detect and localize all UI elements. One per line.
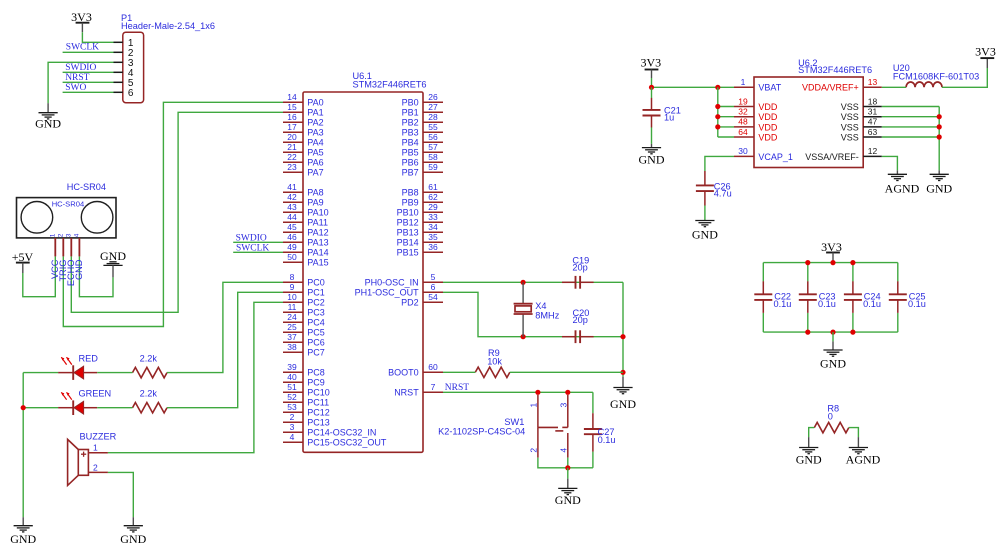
svg-text:2: 2: [93, 462, 98, 472]
wire SWO to P1 pin 6: [63, 91, 114, 93]
svg-text:PC0: PC0: [307, 278, 325, 288]
svg-text:PC10: PC10: [307, 388, 330, 398]
U6.1 pin 56 PB4: [402, 132, 443, 148]
svg-text:PB2: PB2: [402, 118, 419, 128]
wire TRIG to U6.1 PA0: [63, 102, 283, 326]
svg-text:51: 51: [287, 382, 297, 392]
svg-text:GND: GND: [74, 259, 84, 280]
wire SWDIO stub to PA13: [233, 241, 283, 243]
svg-text:GND: GND: [796, 452, 822, 466]
switch SW1 K2-1102SP-C4SC-04: [438, 395, 568, 458]
U6.2 pin 19 VDD: [734, 96, 778, 112]
svg-text:Header-Male-2.54_1x6: Header-Male-2.54_1x6: [121, 21, 215, 31]
wire cap bank bottom rail: [763, 331, 898, 333]
U6.1 pin 7 NRST: [394, 382, 443, 398]
svg-text:7: 7: [431, 382, 436, 392]
svg-text:20p: 20p: [573, 315, 588, 325]
svg-text:60: 60: [428, 362, 438, 372]
op-amp U6.1 STM32F446RET6 main body: [303, 92, 423, 452]
svg-text:37: 37: [287, 332, 297, 342]
U6.1 pin 54 PD2: [401, 292, 443, 308]
U6.1 pin 16 PA2: [283, 112, 324, 128]
svg-text:PC9: PC9: [307, 378, 325, 388]
svg-text:VSS: VSS: [841, 112, 859, 122]
wire GND to R8: [809, 428, 815, 438]
svg-text:PA12: PA12: [307, 228, 328, 238]
junction C24 top: [850, 260, 855, 265]
svg-text:14: 14: [287, 92, 297, 102]
svg-text:PA13: PA13: [307, 238, 328, 248]
U6.2 pin 18 VSS: [841, 96, 882, 112]
svg-text:0.1u: 0.1u: [818, 299, 836, 309]
wire led cathodes to GND: [23, 373, 58, 518]
svg-text:PB7: PB7: [402, 168, 419, 178]
wire VDD vertical with taps: [718, 87, 734, 137]
svg-text:GREEN: GREEN: [79, 389, 112, 399]
U6.1 pin 37 PC6: [283, 332, 325, 348]
wire PH0-OSC_IN to crystal/C19: [443, 281, 623, 283]
svg-text:PC2: PC2: [307, 298, 325, 308]
capacitor C21 1u: [643, 87, 681, 144]
junction VSS pin 47: [937, 124, 942, 129]
U6.1 pin 46 PA13: [283, 232, 329, 248]
svg-text:PA14: PA14: [307, 248, 328, 258]
svg-text:3V3: 3V3: [975, 45, 996, 59]
power symbol GND (below leds): [10, 517, 36, 546]
wire BOOT0 to R9: [443, 371, 475, 373]
svg-text:PC6: PC6: [307, 338, 325, 348]
power symbol 3V3 (far right): [975, 45, 996, 68]
svg-text:0.1u: 0.1u: [774, 299, 792, 309]
svg-text:8: 8: [290, 272, 295, 282]
svg-text:18: 18: [868, 96, 878, 106]
wire R9 to GND vertical: [510, 371, 623, 373]
svg-text:31: 31: [868, 107, 878, 117]
U6.1 pin 53 PC12: [283, 402, 330, 418]
junction C20 right: [620, 334, 625, 339]
svg-text:PC12: PC12: [307, 408, 330, 418]
wire P1 pin 3 to GND: [48, 62, 113, 103]
svg-text:0.1u: 0.1u: [908, 299, 926, 309]
resistor R9 10k: [475, 348, 510, 377]
U6.1 pin 26 PB0: [402, 92, 443, 108]
svg-text:24: 24: [287, 312, 297, 322]
power symbol GND (right of HC-SR04, inverted): [100, 249, 126, 277]
power symbol GND (below C21): [639, 144, 665, 167]
svg-text:43: 43: [287, 202, 297, 212]
svg-text:45: 45: [287, 222, 297, 232]
U6.2 pin 32 VDD: [734, 107, 778, 123]
svg-text:38: 38: [287, 342, 297, 352]
svg-text:STM32F446RET6: STM32F446RET6: [798, 65, 872, 75]
svg-text:GND: GND: [926, 182, 952, 196]
svg-text:29: 29: [428, 202, 438, 212]
connector P1 Header-Male-2.54_1x6: [114, 13, 215, 103]
svg-text:PC1: PC1: [307, 288, 325, 298]
capacitor C25 0.1u: [889, 263, 926, 333]
wire resistor to U6.1 PC0: [167, 282, 283, 372]
svg-text:0: 0: [828, 411, 833, 421]
capacitor C27 0.1u: [584, 392, 616, 468]
wire SWDIO to P1 pin 4: [63, 71, 114, 73]
U6.1 pin 2 PC13: [283, 412, 330, 428]
wire U20 to 3V3 right: [942, 68, 987, 87]
U6.1 pin 14 PA0: [283, 92, 324, 108]
junction VDD pin 19: [715, 104, 720, 109]
junction C24 bottom: [850, 330, 855, 335]
junction VDD pin 48: [715, 124, 720, 129]
U6.2 reference labels: [798, 58, 872, 75]
svg-text:STM32F446RET6: STM32F446RET6: [353, 79, 427, 89]
U6.1 pin 15 PA1: [283, 102, 324, 118]
capacitor C22 0.1u: [754, 263, 791, 333]
svg-text:PA9: PA9: [307, 198, 323, 208]
wire VSS pins to GND vertical: [882, 107, 939, 171]
resistor R8 0: [814, 403, 849, 433]
svg-text:1: 1: [49, 233, 56, 237]
svg-text:3V3: 3V3: [71, 10, 92, 24]
capacitor C19 20p: [562, 256, 594, 289]
svg-text:GND: GND: [610, 397, 636, 411]
svg-text:2: 2: [57, 233, 64, 237]
wire NRST to P1 pin 5: [63, 81, 114, 83]
wire R8 to AGND: [849, 428, 859, 438]
svg-text:PC3: PC3: [307, 308, 325, 318]
svg-text:64: 64: [738, 127, 748, 137]
wire junction to GND below SW1: [567, 468, 569, 479]
svg-text:13: 13: [868, 77, 878, 87]
junction X4 top: [521, 280, 526, 285]
junction VSS pin 31: [937, 114, 942, 119]
svg-text:30: 30: [738, 146, 748, 156]
crystal X4 8MHz: [514, 282, 560, 336]
wire VDDA to U20: [882, 86, 906, 88]
svg-text:VSS: VSS: [841, 132, 859, 142]
led RED: [58, 354, 98, 380]
svg-text:VSS: VSS: [841, 102, 859, 112]
svg-text:16: 16: [287, 112, 297, 122]
U6.1 pin 3 PC14-OSC32_IN: [283, 422, 376, 438]
svg-text:GND: GND: [820, 356, 846, 370]
junction VDD pin 32: [715, 114, 720, 119]
svg-text:PC7: PC7: [307, 348, 325, 358]
wire right vertical of crystal caps: [622, 282, 624, 376]
capacitor C23 0.1u: [799, 263, 836, 333]
power symbol GND (below P1): [35, 103, 61, 130]
svg-text:34: 34: [428, 222, 438, 232]
svg-text:28: 28: [428, 112, 438, 122]
junction VDD vertical top: [715, 85, 720, 90]
U6.2 pin 1 VBAT: [734, 77, 782, 93]
junction C23 top: [805, 260, 810, 265]
svg-text:11: 11: [288, 302, 297, 312]
svg-text:PB4: PB4: [402, 138, 419, 148]
U6.1 reference labels: [353, 71, 427, 89]
power symbol GND (crystal): [610, 377, 636, 411]
svg-text:BUZZER: BUZZER: [80, 431, 117, 441]
junction X4 bottom: [521, 334, 526, 339]
junction SW1 pin 1: [535, 390, 540, 395]
svg-text:48: 48: [738, 117, 748, 127]
svg-text:6: 6: [128, 88, 134, 99]
power symbol AGND (R8): [846, 437, 881, 466]
svg-text:PA4: PA4: [307, 138, 323, 148]
svg-text:PB3: PB3: [402, 128, 419, 138]
U6.1 pin 40 PC9: [283, 372, 325, 388]
wire GREEN led to resistor: [97, 407, 132, 409]
svg-text:PB10: PB10: [397, 208, 419, 218]
U6.1 pin 17 PA3: [283, 122, 324, 138]
svg-text:22: 22: [287, 152, 297, 162]
U6.1 pin 39 PC8: [283, 362, 325, 378]
svg-text:PA11: PA11: [307, 218, 328, 228]
U6.1 pin 43 PA10: [283, 202, 329, 218]
svg-text:2: 2: [290, 412, 295, 422]
svg-text:2.2k: 2.2k: [140, 354, 158, 364]
U6.1 pin 42 PA9: [283, 192, 324, 208]
svg-text:4: 4: [559, 448, 569, 453]
svg-text:57: 57: [428, 142, 438, 152]
resistor 2.2k (GREEN led): [133, 389, 168, 413]
svg-text:27: 27: [428, 102, 438, 112]
wire SW1 bottom to GND and C27: [538, 458, 593, 468]
power symbol 3V3 (left of U6.2): [640, 56, 661, 70]
svg-text:GND: GND: [10, 532, 36, 546]
svg-text:PD2: PD2: [401, 298, 419, 308]
power symbol GND (below SW1): [555, 479, 581, 508]
U6.2 pin 31 VSS: [841, 107, 882, 123]
U6.1 pin 21 PA5: [283, 142, 324, 158]
wire NRST to SW1 and C27: [443, 391, 593, 393]
wire resistor to U6.1 PC1: [167, 292, 283, 407]
svg-text:33: 33: [428, 212, 438, 222]
svg-text:61: 61: [428, 182, 438, 192]
led GREEN: [58, 389, 111, 415]
svg-text:VDD: VDD: [758, 112, 778, 122]
wire ECHO to U6.1 PA1: [71, 112, 283, 312]
U6.1 pin 55 PB3: [402, 122, 443, 138]
svg-text:PB1: PB1: [402, 108, 419, 118]
svg-text:NRST: NRST: [65, 73, 89, 83]
junction C23 bottom: [805, 330, 810, 335]
svg-text:10: 10: [287, 292, 297, 302]
power symbol GND (cap bank): [820, 341, 846, 370]
svg-text:PB15: PB15: [397, 248, 419, 258]
svg-text:PC8: PC8: [307, 368, 325, 378]
wire BUZZER pin 2 to GND: [108, 472, 133, 517]
svg-text:25: 25: [287, 322, 297, 332]
svg-text:PB13: PB13: [397, 228, 419, 238]
svg-text:9: 9: [290, 282, 295, 292]
svg-text:4: 4: [290, 432, 295, 442]
svg-text:53: 53: [287, 402, 297, 412]
svg-text:PA6: PA6: [307, 158, 323, 168]
wire 3V3 to P1 pin 1: [82, 23, 113, 43]
svg-text:52: 52: [287, 392, 297, 402]
junction SW1 pin 3: [565, 390, 570, 395]
svg-text:1: 1: [93, 443, 98, 453]
power symbol GND (below buzzer): [120, 517, 146, 546]
svg-text:5: 5: [431, 272, 436, 282]
wire bottom rail to GND: [832, 332, 834, 341]
svg-text:PB5: PB5: [402, 148, 419, 158]
svg-text:3: 3: [290, 422, 295, 432]
power symbol AGND (U6.2): [885, 170, 920, 195]
svg-text:PB9: PB9: [402, 198, 419, 208]
U6.2 pin 48 VDD: [734, 117, 778, 133]
U6.1 pin 58 PB6: [402, 152, 443, 168]
junction VSS pin 63: [937, 134, 942, 139]
svg-text:PA15: PA15: [307, 258, 328, 268]
svg-text:1: 1: [529, 403, 539, 408]
U6.1 pin 35 PB14: [397, 232, 443, 248]
wire cap bank top rail: [763, 262, 898, 264]
U6.1 pin 22 PA6: [283, 152, 324, 168]
U6.1 pin 8 PC0: [283, 272, 325, 288]
svg-text:PH1-OSC_OUT: PH1-OSC_OUT: [355, 288, 420, 298]
svg-text:40: 40: [287, 372, 297, 382]
svg-text:35: 35: [428, 232, 438, 242]
svg-text:VBAT: VBAT: [758, 83, 781, 93]
svg-text:41: 41: [287, 182, 297, 192]
svg-text:PH0-OSC_IN: PH0-OSC_IN: [365, 278, 419, 288]
svg-text:12: 12: [868, 146, 878, 156]
U6.1 pin 20 PA4: [283, 132, 324, 148]
U6.1 pin 10 PC2: [283, 292, 325, 308]
svg-text:17: 17: [287, 122, 297, 132]
U6.1 pin 34 PB13: [397, 222, 443, 238]
U6.1 pin 60 BOOT0: [388, 362, 443, 378]
U6.2 pin 12 VSSA/VREF-: [805, 146, 882, 162]
wire PH1-OSC_OUT to crystal/C20: [443, 292, 623, 336]
wire VCAP_1 to C26: [705, 156, 734, 171]
svg-text:GND: GND: [639, 152, 665, 166]
U6.2 pin 30 VCAP_1: [734, 146, 793, 162]
svg-text:21: 21: [287, 142, 297, 152]
wire +5V to HC-SR04 VCC: [23, 256, 56, 296]
junction 3V3 drop top rail: [830, 260, 835, 265]
svg-text:GND: GND: [100, 249, 126, 263]
U6.1 pin 23 PA7: [283, 162, 324, 178]
svg-text:VDD: VDD: [758, 102, 778, 112]
U6.1 pin 27 PB1: [402, 102, 443, 118]
U6.1 pin 9 PC1: [283, 282, 325, 298]
U6.1 pin 29 PB10: [397, 202, 443, 218]
svg-text:AGND: AGND: [846, 452, 881, 466]
svg-text:GND: GND: [692, 227, 718, 241]
U6.1 pin 24 PC4: [283, 312, 325, 328]
sensor HC-SR04: [17, 182, 117, 286]
wire 3V3 to cap bank rail: [832, 253, 834, 263]
U6.1 pin 6 PH1-OSC_OUT: [355, 282, 443, 298]
wire 3V3 to VBAT/VDD rail: [652, 70, 735, 88]
svg-text:63: 63: [868, 127, 878, 137]
svg-text:PC4: PC4: [307, 318, 325, 328]
svg-text:26: 26: [428, 92, 438, 102]
U6.2 pin 13 VDDA/VREF+: [802, 77, 882, 93]
U6.1 pin 38 PC7: [283, 342, 325, 358]
U6.1 pin 5 PH0-OSC_IN: [365, 272, 443, 288]
svg-text:46: 46: [287, 232, 297, 242]
svg-text:1: 1: [741, 77, 746, 87]
svg-text:PB14: PB14: [397, 238, 419, 248]
svg-text:PA7: PA7: [307, 168, 323, 178]
svg-text:VSS: VSS: [841, 122, 859, 132]
svg-text:NRST: NRST: [394, 388, 419, 398]
svg-text:PA1: PA1: [307, 108, 323, 118]
U6.1 pin 28 PB2: [402, 112, 443, 128]
svg-text:GND: GND: [555, 493, 581, 507]
svg-text:39: 39: [287, 362, 297, 372]
power symbol 3V3 (at P1): [71, 10, 92, 24]
svg-text:AGND: AGND: [885, 182, 920, 196]
U6.1 pin 52 PC11: [283, 392, 329, 408]
buzzer BUZZER: [68, 431, 117, 485]
svg-text:59: 59: [428, 162, 438, 172]
svg-text:8MHz: 8MHz: [535, 310, 559, 320]
svg-text:19: 19: [738, 96, 748, 106]
svg-text:PB0: PB0: [402, 98, 419, 108]
resistor 2.2k (RED led): [133, 354, 168, 378]
junction led GND net: [21, 405, 26, 410]
svg-text:PA8: PA8: [307, 188, 323, 198]
U6.1 pin 62 PB9: [402, 192, 443, 208]
svg-text:3V3: 3V3: [640, 56, 661, 70]
U6.1 pin 59 PB7: [402, 162, 443, 178]
svg-text:42: 42: [287, 192, 297, 202]
svg-text:55: 55: [428, 122, 438, 132]
svg-text:GND: GND: [35, 117, 61, 131]
U6.1 pin 33 PB12: [397, 212, 443, 228]
svg-text:3V3: 3V3: [821, 240, 842, 254]
svg-text:4: 4: [73, 233, 80, 237]
U6.1 pin 11 PC3: [283, 302, 325, 318]
svg-text:PA10: PA10: [307, 208, 328, 218]
svg-text:VDDA/VREF+: VDDA/VREF+: [802, 83, 859, 93]
capacitor C26 4.7u: [696, 171, 732, 221]
svg-text:36: 36: [428, 242, 438, 252]
U6.1 pin 49 PA14: [283, 242, 329, 258]
wire SWCLK stub to PA14: [233, 251, 283, 253]
svg-text:23: 23: [287, 162, 297, 172]
svg-text:2: 2: [529, 448, 539, 453]
power symbol +5V: [12, 250, 34, 264]
inductor U20 FCM1608KF-601T03: [893, 63, 979, 88]
svg-text:HC-SR04: HC-SR04: [67, 182, 106, 192]
svg-text:PB6: PB6: [402, 158, 419, 168]
svg-text:PA0: PA0: [307, 98, 323, 108]
U6.2 pin 47 VSS: [841, 117, 882, 133]
junction R9 right: [620, 370, 625, 375]
svg-text:1u: 1u: [664, 113, 674, 123]
U6.1 pin 25 PC5: [283, 322, 325, 338]
svg-text:3: 3: [559, 403, 569, 408]
U6.1 pin 57 PB5: [402, 142, 443, 158]
svg-text:0.1u: 0.1u: [598, 435, 616, 445]
U6.2 pin 64 VDD: [734, 127, 778, 143]
svg-text:PA2: PA2: [307, 118, 323, 128]
power symbol 3V3 (cap bank): [821, 240, 842, 254]
wire RED led to resistor: [97, 372, 132, 374]
svg-text:62: 62: [428, 192, 438, 202]
svg-text:VDD: VDD: [758, 122, 778, 132]
svg-text:PC15-OSC32_OUT: PC15-OSC32_OUT: [307, 438, 387, 448]
svg-text:+5V: +5V: [12, 250, 34, 264]
svg-text:6: 6: [431, 282, 436, 292]
svg-text:SWDIO: SWDIO: [65, 63, 96, 73]
svg-text:SWCLK: SWCLK: [66, 42, 99, 52]
junction GND drop bottom rail: [830, 330, 835, 335]
